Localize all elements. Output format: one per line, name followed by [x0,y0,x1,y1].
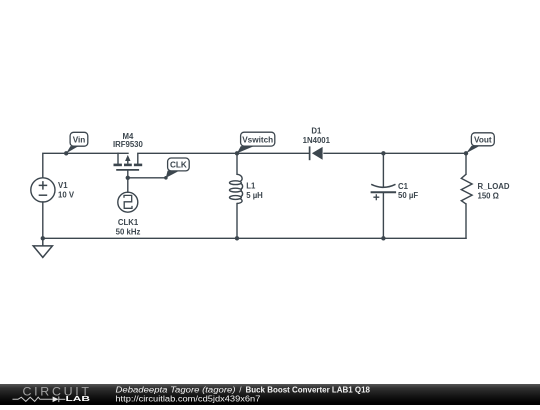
svg-text:http://circuitlab.com/cd5jdx43: http://circuitlab.com/cd5jdx439x6n7 [115,395,261,404]
capacitor C1 [371,184,397,200]
label L1 5 uH [246,182,263,200]
svg-text:R_LOAD: R_LOAD [478,182,510,191]
wire: bottom rail [43,237,466,239]
svg-text:150 Ω: 150 Ω [478,192,499,201]
svg-text:5 µH: 5 µH [246,191,263,200]
node Vout tap [464,151,468,155]
node C1 bottom [381,236,385,240]
wire: gate vertical to CLK1 [127,170,129,192]
footer text [115,385,370,403]
node gate junction [126,176,130,180]
svg-text:Debadeepta Tagore (tagore): Debadeepta Tagore (tagore) [116,385,236,394]
svg-text:D1: D1 [311,127,322,136]
svg-text:L1: L1 [246,182,256,191]
node Vin tap [64,151,68,155]
svg-text:Vout: Vout [474,135,492,144]
node L1 bottom [235,236,239,240]
voltage source V1 [31,178,55,202]
svg-text:Vswitch: Vswitch [242,135,273,144]
svg-text:C1: C1 [398,182,409,191]
wire: MOSFET drain stub and rail to D1 [138,153,310,163]
resistor R_LOAD [461,174,472,204]
CircuitLab logo [13,384,91,403]
svg-text:CLK1: CLK1 [118,218,139,227]
clock source CLK1 [118,192,138,212]
svg-text:/: / [239,385,242,394]
wire: MOSFET source stub [117,153,119,163]
wire: R_LOAD bottom stub [465,204,467,238]
inductor L1 [230,174,243,203]
node Vswitch / L1 top [235,151,239,155]
wire: gate node to CLK flag [128,177,166,179]
wire: L1 top stub [236,153,238,174]
transistor M4 (PMOS) [114,155,143,170]
wire: L1 bottom stub [236,204,238,239]
svg-text:50 kHz: 50 kHz [116,228,141,237]
label V1 value [58,181,75,200]
svg-text:Buck Boost Converter LAB1 Q18: Buck Boost Converter LAB1 Q18 [246,385,371,394]
wire: D1 cathode-side rail to Vout node [324,152,466,154]
svg-text:IRF9530: IRF9530 [113,140,144,149]
wire: V1 top to top rail to MOSFET source [43,153,128,178]
flag Vin [66,132,88,153]
label R_LOAD 150 ohm [478,182,510,201]
svg-text:Vin: Vin [73,135,86,144]
flag CLK [166,158,189,178]
svg-text:CLK: CLK [170,161,187,170]
wire: R_LOAD top stub [465,153,467,174]
ground [33,238,52,257]
label M4 IRF9530 [113,132,144,149]
svg-text:50 µF: 50 µF [398,191,418,200]
flag Vswitch [237,132,275,153]
wire: C1 top stub [382,153,384,187]
svg-text:LAB: LAB [66,396,91,403]
wire: C1 bottom stub [382,192,384,238]
label D1 1N4001 [303,127,331,145]
svg-text:10 V: 10 V [58,191,75,200]
flag Vout [466,133,494,154]
svg-text:V1: V1 [58,181,68,190]
node ground junction [41,236,45,240]
svg-text:1N4001: 1N4001 [303,136,331,145]
node CLK tap [164,176,168,180]
wire: V1 bottom [42,202,44,238]
node C1 top [381,151,385,155]
label C1 50 uF [398,182,418,200]
diode D1 [310,146,323,160]
label CLK1 50 kHz [116,218,141,237]
junction dots [41,151,469,240]
